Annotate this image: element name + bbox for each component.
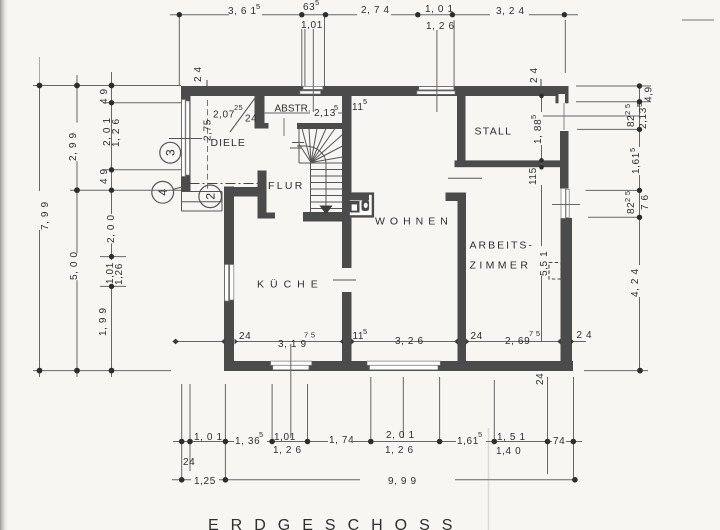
top chain line	[170, 14, 229, 16]
wall: Stall left	[457, 95, 466, 161]
window: Kueche bottom lower bar	[273, 365, 309, 370]
svg-text:2 5: 2 5	[623, 104, 632, 115]
Diele dashed dimension line	[207, 100, 209, 191]
svg-text:5: 5	[529, 115, 538, 119]
top chain dots	[177, 12, 182, 17]
entrance step lines	[182, 191, 223, 193]
svg-text:3, 2 6: 3, 2 6	[395, 336, 424, 347]
window: Wohnen bottom lower bar	[370, 365, 439, 370]
abstr leader line	[264, 112, 310, 114]
stairs winder left edge	[298, 129, 300, 163]
svg-text:ARBEITS-: ARBEITS-	[470, 240, 534, 252]
wall: Abstellraum left	[255, 96, 265, 124]
wall: Kueche left exterior	[224, 187, 234, 372]
stub line in Wohnen below Stall	[448, 177, 482, 179]
Diele leader line	[169, 138, 202, 140]
window: left wall Diele outer bar	[182, 100, 186, 177]
svg-text:3: 3	[163, 149, 177, 156]
wc fixture round	[362, 200, 370, 211]
svg-text:7 6: 7 6	[640, 194, 651, 210]
wc niche dark top strip	[348, 193, 369, 201]
svg-text:1, 2 6: 1, 2 6	[385, 445, 414, 456]
svg-text:3, 2 4: 3, 2 4	[496, 6, 525, 17]
svg-text:5: 5	[334, 103, 338, 112]
svg-text:1, 36: 1, 36	[235, 436, 260, 447]
window: right wall Arbeitszimmer left bar	[561, 188, 565, 218]
wall: stairs bottom (Kueche top)	[303, 212, 345, 222]
scan artifact top right page line	[682, 19, 714, 21]
window: top wall A upper bar	[303, 86, 323, 89]
svg-text:STALL: STALL	[475, 126, 513, 138]
svg-text:KÜCHE: KÜCHE	[257, 279, 324, 291]
window: Kueche left wall outer bar	[225, 265, 229, 302]
svg-text:4: 4	[156, 189, 170, 196]
svg-text:2,13: 2,13	[638, 107, 649, 129]
bottom chain1 dots	[179, 439, 185, 445]
svg-text:24: 24	[535, 373, 546, 385]
svg-text:2 4: 2 4	[529, 67, 540, 83]
window: top wall B lower bar	[417, 91, 455, 94]
wc niche box	[349, 194, 373, 217]
scan artifact vertical line bottom	[488, 428, 490, 530]
svg-text:FLUR: FLUR	[268, 180, 305, 192]
svg-text:5: 5	[628, 148, 637, 152]
svg-text:ZIMMER: ZIMMER	[470, 260, 532, 272]
svg-text:1,01: 1,01	[274, 432, 296, 443]
stall dimension line vertical	[541, 96, 543, 112]
svg-text:25: 25	[234, 103, 243, 112]
svg-text:1, 2 6: 1, 2 6	[426, 21, 455, 32]
svg-text:ABSTR.: ABSTR.	[275, 104, 311, 115]
wall thickness tick top-left	[206, 80, 208, 86]
svg-text:WOHNEN: WOHNEN	[375, 216, 453, 228]
svg-text:1,61: 1,61	[457, 436, 479, 447]
door line in Kueche/Wohnen wall gap	[333, 279, 356, 281]
stairs walk line arc	[297, 146, 326, 206]
wall: top exterior	[181, 86, 569, 96]
circle item 2	[199, 185, 222, 208]
right horizontal extension lines	[576, 85, 651, 87]
svg-text:5,5 1: 5,5 1	[539, 251, 550, 276]
wall: Stall bottom	[455, 160, 569, 167]
left chain dots	[37, 83, 43, 89]
top chain extension verticals	[178, 15, 180, 86]
flur dash-dot axis line	[190, 183, 258, 185]
svg-text:1,25: 1,25	[194, 476, 216, 487]
svg-text:1,01: 1,01	[301, 20, 323, 31]
wall: stairs top (Abstellraum bottom)	[297, 123, 342, 129]
svg-text:3, 1 9: 3, 1 9	[278, 339, 307, 350]
svg-text:82: 82	[626, 115, 637, 127]
window: Wohnen bottom upper bar	[367, 361, 440, 365]
svg-text:5: 5	[478, 430, 482, 439]
stairs down arrow	[320, 206, 333, 215]
wall thickness tick top-right	[540, 79, 542, 86]
svg-text:7, 9 9: 7, 9 9	[40, 201, 51, 230]
bottom extension verticals	[181, 384, 183, 480]
Diele dimension slash	[230, 96, 257, 132]
wall: middle vertical upper (stairs right)	[342, 96, 352, 268]
svg-text:4,9: 4,9	[644, 86, 655, 102]
svg-text:4 9: 4 9	[99, 168, 110, 184]
interior chain diamonds	[172, 339, 574, 345]
window: Kueche left wall inner bar	[230, 265, 234, 301]
svg-text:4 9: 4 9	[99, 88, 110, 104]
wall: entry foot	[267, 213, 276, 219]
svg-text:5, 0 0: 5, 0 0	[69, 251, 80, 280]
bottom chain 1	[173, 441, 234, 443]
wall: top-right corner inner stub	[556, 96, 559, 103]
svg-text:1,4 0: 1,4 0	[496, 446, 521, 457]
svg-text:1, 5 1: 1, 5 1	[497, 432, 526, 443]
svg-text:1, 2 6: 1, 2 6	[111, 118, 122, 147]
svg-text:24: 24	[183, 457, 195, 468]
svg-text:DIELE: DIELE	[211, 137, 246, 149]
svg-text:7 5: 7 5	[304, 331, 315, 340]
window: top wall A lower bar	[300, 91, 321, 94]
wall: top-right corner step	[565, 96, 569, 103]
stairs lower treads	[311, 169, 343, 171]
stall dim dots	[539, 94, 544, 99]
svg-text:5: 5	[315, 0, 319, 7]
left chain inner	[111, 72, 113, 214]
svg-text:2, 0 0: 2, 0 0	[106, 214, 117, 243]
svg-text:5: 5	[259, 430, 263, 439]
svg-text:1, 9 9: 1, 9 9	[98, 307, 109, 336]
svg-text:2 4: 2 4	[193, 66, 204, 82]
svg-text:5: 5	[635, 103, 644, 107]
svg-text:1, 0 1: 1, 0 1	[194, 432, 223, 443]
interior chain line	[176, 341, 225, 343]
svg-text:2: 2	[203, 193, 217, 200]
svg-text:1, 88: 1, 88	[533, 119, 544, 144]
window: left wall Diele inner bar	[186, 101, 190, 175]
svg-text:7 5: 7 5	[529, 329, 540, 338]
wc fixture square	[349, 201, 360, 213]
wall: right exterior lower piece	[561, 218, 573, 361]
chimney dashed box in Arbeitszimmer	[549, 263, 561, 280]
svg-text:2, 69: 2, 69	[505, 336, 530, 347]
svg-text:ERDGESCHOSS: ERDGESCHOSS	[208, 517, 464, 530]
wall: bottom exterior	[224, 361, 573, 371]
svg-text:1, 0 1: 1, 0 1	[425, 4, 454, 15]
svg-text:24: 24	[245, 114, 257, 125]
svg-text:1, 74: 1, 74	[329, 435, 354, 446]
svg-text:24: 24	[471, 331, 483, 342]
circle item 4	[152, 181, 184, 203]
svg-text:82: 82	[626, 202, 637, 214]
svg-text:2,07: 2,07	[213, 110, 235, 121]
wall: Abstellraum left foot	[255, 123, 269, 129]
wall: entry bar (Flur/Kueche top)	[224, 187, 258, 197]
svg-text:1, 2 6: 1, 2 6	[273, 445, 302, 456]
stairs entry double tick	[292, 142, 304, 144]
svg-text:1,26: 1,26	[114, 263, 125, 285]
right chain vertical	[639, 86, 641, 147]
svg-text:2, 9 9: 2, 9 9	[68, 132, 79, 161]
svg-text:115: 115	[528, 167, 539, 185]
wall: right exterior upper piece	[560, 131, 569, 189]
svg-text:2, 0 1: 2, 0 1	[386, 430, 415, 441]
left chain 7,99	[39, 86, 41, 192]
svg-text:5: 5	[363, 327, 367, 336]
stairs winder fan treads	[299, 144, 311, 163]
circle item 3	[160, 142, 181, 163]
svg-text:2 5: 2 5	[623, 191, 632, 202]
left horizontal extension lines	[33, 85, 181, 87]
wall: bottom-right corner	[548, 361, 573, 371]
wall: left exterior block above entrance	[181, 177, 191, 192]
bottom chain2 dots	[179, 477, 185, 483]
svg-text:1,61: 1,61	[631, 152, 642, 174]
svg-text:4, 2 4: 4, 2 4	[630, 268, 641, 297]
svg-text:2,13: 2,13	[314, 108, 336, 119]
svg-text:5: 5	[256, 2, 260, 11]
svg-text:2, 7 4: 2, 7 4	[361, 5, 390, 16]
svg-text:24: 24	[239, 331, 251, 342]
window line: right wall opening at Stall	[563, 103, 565, 130]
entrance step right edge	[221, 192, 223, 212]
entrance step left edge	[181, 192, 183, 212]
svg-text:74: 74	[553, 436, 565, 447]
bottom chain 2	[172, 479, 191, 481]
svg-text:9, 9 9: 9, 9 9	[388, 476, 417, 487]
short line in Abstellraum	[283, 118, 285, 136]
wall: entry vertical (Flur west)	[258, 171, 267, 219]
wall: left exterior upper (Diele)	[181, 96, 191, 178]
window: right wall Arbeitszimmer right bar	[566, 189, 569, 217]
svg-text:3, 6 1: 3, 6 1	[228, 6, 257, 17]
window: top wall B upper bar	[419, 87, 454, 90]
svg-text:63: 63	[303, 2, 315, 13]
stairs tread at hub level	[299, 162, 342, 164]
svg-text:2 4: 2 4	[577, 330, 593, 341]
wall: Arbeitszimmer left	[458, 200, 467, 361]
right chain dots	[637, 83, 642, 88]
wall: middle vertical lower (Kueche right)	[342, 292, 352, 361]
left chain 2,99/5,00	[76, 75, 78, 123]
window: Kueche bottom upper bar	[271, 361, 312, 365]
corner notch top-right	[559, 94, 566, 103]
svg-text:5: 5	[363, 97, 367, 106]
stairs lower flight left edge	[310, 163, 312, 212]
wall: Arbeitszimmer left top stub	[446, 193, 467, 202]
svg-text:11: 11	[352, 102, 364, 113]
